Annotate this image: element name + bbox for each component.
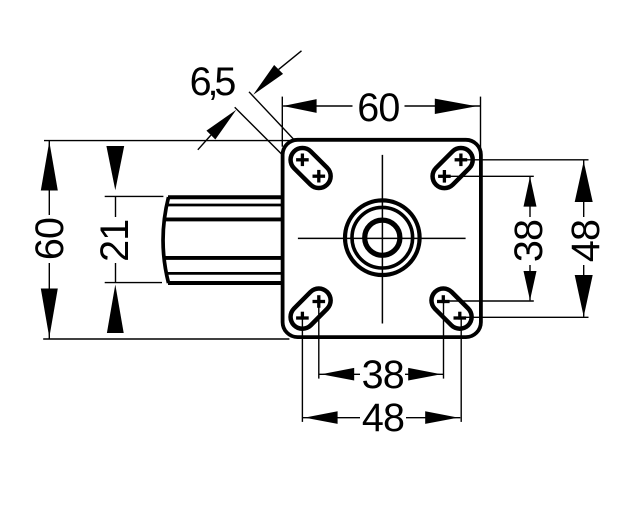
ext top-60 right [480, 97, 482, 148]
tube (stem) left of plate [163, 197, 284, 283]
svg-text:21: 21 [93, 220, 137, 262]
tube left end arc [163, 197, 168, 283]
svg-text:48: 48 [564, 220, 608, 262]
arrow top-60 right [435, 99, 477, 114]
thin extension / dimension lines [43, 51, 588, 422]
arrow left-60 top [41, 142, 58, 191]
ext bottom-38 right [443, 300, 445, 378]
ext left-60 bottom [43, 338, 289, 340]
tube groove line 2 [167, 204, 284, 207]
ext left-21 top [105, 195, 164, 197]
center boss middle ring [352, 207, 413, 268]
cross TL inner [313, 175, 326, 178]
label 48 right [571, 217, 600, 265]
tube bottom edge [168, 281, 284, 285]
mounting plate outline [283, 140, 481, 337]
slot bottom-left [296, 295, 325, 319]
ext right-38 bottom [443, 300, 534, 302]
arrow bottom-48 left [305, 411, 338, 424]
center crosshair vertical [381, 155, 383, 324]
cross BR outer (no bottom arm) [454, 316, 467, 319]
label 38 bottom [360, 360, 405, 389]
cross BL outer (no bottom arm) [296, 316, 309, 319]
dim line right-48 [583, 160, 585, 317]
slot top-right [438, 154, 467, 183]
arrow bottom-38 left [321, 368, 354, 381]
ext right-48 top [461, 159, 589, 161]
center crosshair horizontal [298, 237, 466, 239]
leader 6,5 lower [198, 135, 211, 150]
dim line bottom-48 [302, 417, 460, 419]
cross TL outer [296, 158, 309, 161]
arrow 6,5 upper [253, 65, 283, 95]
slot top-left [296, 154, 325, 183]
label 38 right [515, 217, 543, 265]
svg-text:38: 38 [507, 220, 551, 262]
ext right-38 top [444, 175, 533, 177]
label 21 left [101, 217, 128, 263]
arrow left-21 top [106, 146, 124, 190]
tube top edge [168, 195, 284, 199]
tube groove line 3 [165, 217, 284, 221]
label 48 bottom [360, 403, 406, 432]
arrow right-48 bottom [575, 275, 593, 317]
slot bottom-right [437, 295, 466, 319]
dimension texts [28, 60, 608, 440]
svg-text:6,5: 6,5 [190, 60, 236, 104]
ext top-60 left [281, 97, 283, 147]
ext bottom-48 left [301, 317, 303, 422]
cross BR inner (no bottom arm) [437, 300, 450, 303]
center boss outer ring [345, 200, 420, 275]
label 60 left [35, 215, 64, 263]
svg-text:60: 60 [357, 86, 399, 130]
svg-text:48: 48 [362, 396, 404, 440]
arrow right-48 top [575, 161, 593, 202]
svg-text:38: 38 [362, 353, 404, 397]
dim line left-21 [115, 196, 117, 282]
arrow 6,5 lower [206, 110, 236, 140]
label 60 top [353, 91, 405, 124]
dim line top-60 [283, 105, 480, 107]
ext 6,5 lower tangent [235, 107, 282, 154]
cross TR outer [455, 158, 468, 161]
arrow left-60 bottom [41, 289, 58, 338]
arrow bottom-48 right [425, 411, 458, 424]
arrow top-60 left [283, 99, 317, 113]
dim line left-60 [48, 141, 50, 339]
cross TR inner [438, 175, 451, 178]
ext left-21 bottom [105, 282, 162, 284]
center boss inner ring [365, 220, 400, 255]
arrow right-38 top [524, 177, 537, 207]
arrow left-21 bottom [107, 285, 124, 334]
ext right-48 bottom [460, 316, 589, 318]
cross BL inner [313, 300, 326, 303]
tube groove line 4 [165, 256, 284, 260]
arrow right-38 bottom [524, 271, 537, 300]
arrowheads [41, 65, 593, 424]
leader 6,5 upper [279, 51, 302, 70]
arrow bottom-38 right [408, 368, 441, 381]
ext left-60 top [44, 140, 301, 142]
ext 6,5 upper tangent [249, 92, 295, 141]
dim line right-38 [529, 176, 531, 300]
ext bottom-38 left [318, 300, 320, 378]
tube groove line 5 [167, 272, 284, 275]
svg-text:60: 60 [28, 218, 72, 260]
dim line bottom-38 [319, 373, 444, 375]
ext bottom-48 right [460, 317, 462, 422]
